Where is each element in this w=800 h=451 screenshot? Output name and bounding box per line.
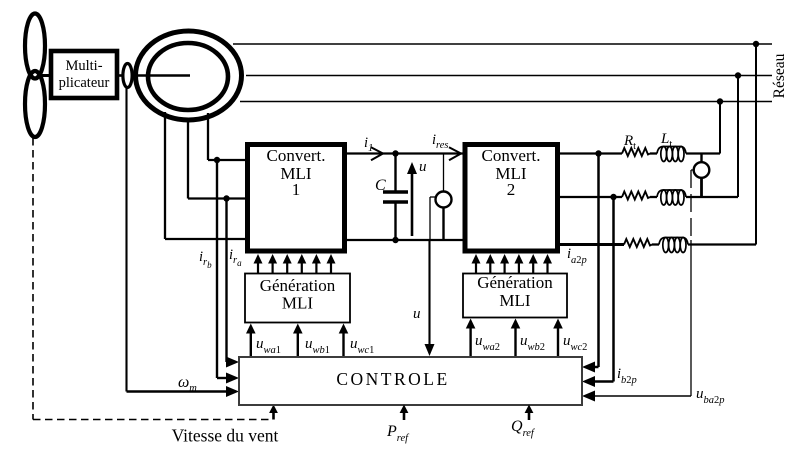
wire: DC bus bottom [347,239,463,241]
svg-text:CONTROLE: CONTROLE [336,369,449,389]
wire: u_ba2p into CONTROLE [582,391,691,402]
arrow: PWM pulse 2-3 [500,254,509,274]
arrow: u_wa2 into Génération MLI 2 [466,319,476,358]
inductor phase b [657,190,686,205]
wire: u measurement to CONTROLE [425,240,435,356]
wire: DC bus top [347,152,463,154]
coupling (speed sensor) [123,64,132,88]
svg-text:Convert.: Convert. [266,146,325,165]
wire: generator phase drop c [164,112,166,239]
wire: u_ba2p sense dashed [691,170,694,396]
gearbox Multiplicateur [51,51,117,98]
wind turbine blade lower [25,71,45,137]
svg-text:MLI: MLI [499,291,531,310]
wire: vitesse du vent dashed sense line [33,138,271,420]
wind turbine blade upper [25,14,45,79]
voltage sensor u_ba2p (circle) [694,154,710,198]
generator inner ring [148,43,228,110]
arrow: PWM pulse 1-2 [268,254,277,274]
wire: omega_m measurement [127,88,229,392]
arrow: u_wb1 into Génération MLI 1 [293,324,303,358]
generator outer ring [136,31,242,120]
shaft gearbox to coupling [117,74,123,77]
arrow+label: i_res [432,132,461,160]
svg-text:Réseau: Réseau [771,53,788,98]
wire: MLI1 input b [188,195,245,201]
arrow+label: Q_ref [511,405,536,440]
wire: MLI1 input a [208,157,245,163]
svg-text:Convert.: Convert. [481,146,540,165]
inductor L_t phase a [657,147,686,162]
resistor R_t phase a [622,148,650,156]
svg-text:C: C [375,177,386,194]
arrow: PWM pulse 2-1 [472,254,481,274]
arrow: PWM pulse 2-4 [514,254,523,274]
wire: u sensor tap to measurement [430,197,436,240]
wire: generator phase drop a [207,113,209,160]
arrow: i_ra into CONTROLE left [226,357,239,368]
arrow: vitesse du vent into CONTROLE [269,405,278,420]
voltage sensor U (circle) [436,154,452,241]
arrow: PWM pulse 2-2 [486,254,495,274]
arrow: u bus voltage [407,162,417,236]
arrow: omega_m into CONTROLE left [226,386,239,397]
resistor phase b [622,192,650,200]
arrow: PWM pulse 1-3 [283,254,292,274]
wire: phase a2 output [558,150,721,156]
svg-text:u: u [419,159,427,175]
wire: network line 3 (bottom) [240,98,772,104]
wire: i_a2p measurement [582,154,599,373]
wire: generator phase drop b [187,118,189,199]
wire: i_rb measurement [217,160,228,378]
arrow: u_wc2 into Génération MLI 2 [553,319,563,358]
wire: phase b2 output [558,194,739,200]
controller box: CONTROLE [239,357,582,405]
wire: grid riser phase b (x=738) [737,76,739,198]
arrow+label: i_1 [364,135,383,160]
svg-text:MLI: MLI [282,294,314,313]
resistor phase c [624,239,652,247]
arrow: PWM pulse 1-5 [312,254,321,274]
wire: grid riser phase a (x=720) [719,102,721,154]
shaft coupling to generator center [132,74,190,77]
wire: network line 1 (top) [233,41,772,47]
arrow: PWM pulse 1-4 [297,254,306,274]
wire: MLI1 input c [165,238,245,240]
wire: grid riser phase c (x=756) [755,44,757,245]
svg-text:Génération: Génération [260,276,336,295]
PWM generator box 2: Génération MLI [463,273,567,318]
svg-text:1: 1 [292,180,301,199]
svg-text:Multi-: Multi- [65,58,102,74]
svg-text:Vitesse du vent: Vitesse du vent [172,426,279,446]
arrow+label: P_ref [386,405,410,445]
converter U1: Convert. MLI 1 [248,145,345,252]
svg-text:2: 2 [507,180,516,199]
inductor phase c [659,238,688,253]
wire: phase c2 output [558,243,757,246]
capacitor C [383,150,408,243]
svg-text:plicateur: plicateur [59,75,110,91]
arrow: u_wc1 into Génération MLI 1 [339,324,349,358]
arrow: PWM pulse 2-6 [543,254,552,274]
converter U2: Convert. MLI 2 [465,145,558,252]
turbine hub shaft [38,74,50,77]
arrow: u_wa1 into Génération MLI 1 [246,324,256,358]
PWM generator box 1: Génération MLI [245,274,350,323]
arrow: u_wb2 into Génération MLI 2 [511,319,521,358]
arrow: PWM pulse 2-5 [529,254,538,274]
wire: network line 2 (middle) [246,72,772,78]
arrow: PWM pulse 1-1 [254,254,263,274]
arrow: i_rb into CONTROLE left [226,373,239,384]
arrow: PWM pulse 1-6 [327,254,336,274]
svg-text:u: u [413,306,421,322]
wire: i_b2p measurement [582,197,614,387]
wire: i_ra measurement [227,199,229,363]
svg-text:Génération: Génération [477,273,553,292]
